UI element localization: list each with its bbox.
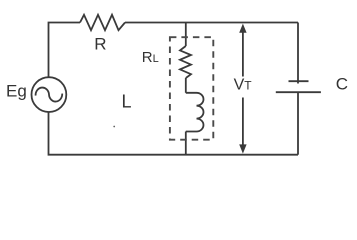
svg-text:C: C <box>336 74 348 93</box>
wire middle branch bottom <box>185 132 187 155</box>
VT arrow shaft upper <box>242 30 244 77</box>
VT arrowhead down <box>239 144 246 153</box>
sine wave inside source <box>36 88 63 102</box>
resistor RL <box>180 46 191 78</box>
capacitor C bottom plate <box>276 91 321 93</box>
wire top-right segment <box>125 22 298 24</box>
AC source Eg <box>32 77 67 112</box>
svg-text:Eg: Eg <box>6 81 27 100</box>
wire middle branch top <box>185 23 187 47</box>
resistor R <box>80 15 125 30</box>
stray dot <box>113 126 115 128</box>
wire capacitor bottom lead <box>297 92 299 155</box>
wire between RL and L <box>185 78 187 93</box>
svg-text:L: L <box>122 92 132 112</box>
capacitor C top plate <box>289 80 309 82</box>
VT arrow shaft lower <box>242 98 244 148</box>
svg-text:R: R <box>94 34 106 53</box>
svg-text:VT: VT <box>234 76 253 93</box>
wire left-bottom segment <box>49 112 299 155</box>
inductor L <box>186 93 204 132</box>
wire top-left segment <box>49 23 81 78</box>
VT arrowhead up <box>239 24 246 33</box>
dashed load box <box>170 37 213 140</box>
wire capacitor top lead <box>297 23 299 84</box>
svg-text:RL: RL <box>142 49 159 66</box>
